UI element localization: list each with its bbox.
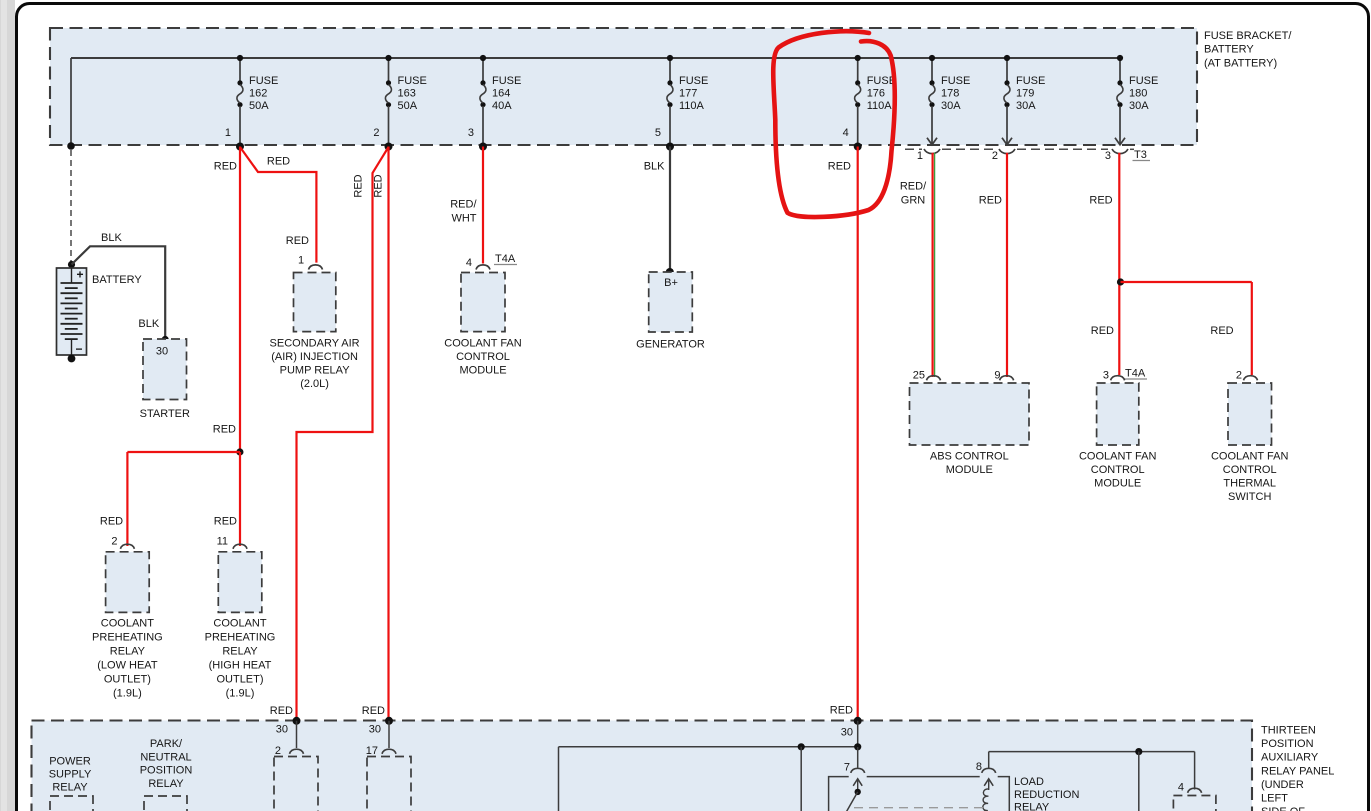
svg-text:177: 177 — [679, 87, 697, 99]
svg-text:RED: RED — [353, 174, 365, 197]
svg-text:30: 30 — [369, 723, 381, 735]
svg-text:30A: 30A — [1016, 100, 1036, 112]
svg-text:30A: 30A — [941, 100, 961, 112]
svg-text:SWITCH: SWITCH — [1228, 491, 1271, 503]
svg-text:(UNDER: (UNDER — [1261, 779, 1304, 791]
svg-text:RELAY: RELAY — [52, 782, 88, 794]
svg-text:RED: RED — [214, 515, 237, 527]
svg-text:SIDE OF: SIDE OF — [1261, 806, 1305, 811]
svg-text:RED: RED — [213, 424, 236, 436]
svg-text:RED: RED — [267, 156, 290, 168]
svg-text:CONTROL: CONTROL — [1091, 464, 1145, 476]
svg-text:GENERATOR: GENERATOR — [636, 339, 705, 351]
svg-text:1: 1 — [225, 127, 231, 139]
svg-text:50A: 50A — [249, 100, 269, 112]
svg-text:SECONDARY AIR: SECONDARY AIR — [270, 338, 360, 350]
svg-text:3: 3 — [1103, 370, 1109, 382]
svg-text:BLK: BLK — [101, 232, 122, 244]
svg-text:+: + — [76, 268, 83, 282]
svg-text:T4A: T4A — [495, 253, 516, 265]
svg-text:RED/: RED/ — [900, 181, 927, 193]
svg-text:FUSE: FUSE — [398, 75, 427, 87]
svg-text:POWER: POWER — [49, 756, 91, 768]
svg-text:POSITION: POSITION — [140, 765, 193, 777]
svg-text:176: 176 — [867, 87, 885, 99]
svg-text:AUXILIARY: AUXILIARY — [1261, 752, 1319, 764]
svg-text:COOLANT: COOLANT — [213, 618, 266, 630]
svg-text:FUSE BRACKET/: FUSE BRACKET/ — [1204, 30, 1292, 42]
svg-text:COOLANT FAN: COOLANT FAN — [1211, 451, 1288, 463]
svg-text:RED: RED — [362, 705, 385, 717]
svg-text:CONTROL: CONTROL — [1223, 464, 1277, 476]
svg-text:4: 4 — [466, 257, 472, 269]
svg-text:WHT: WHT — [451, 213, 476, 225]
svg-text:30A: 30A — [1129, 100, 1149, 112]
svg-text:164: 164 — [492, 87, 510, 99]
svg-text:COOLANT: COOLANT — [101, 618, 154, 630]
svg-text:(LOW HEAT: (LOW HEAT — [97, 660, 158, 672]
svg-text:PREHEATING: PREHEATING — [92, 632, 163, 644]
svg-text:50A: 50A — [398, 100, 418, 112]
svg-text:CONTROL: CONTROL — [456, 351, 510, 363]
svg-text:(AIR) INJECTION: (AIR) INJECTION — [271, 351, 358, 363]
svg-text:3: 3 — [1105, 150, 1111, 162]
svg-text:RELAY: RELAY — [148, 778, 184, 790]
svg-text:162: 162 — [249, 87, 267, 99]
svg-text:180: 180 — [1129, 87, 1147, 99]
svg-text:T3: T3 — [1134, 149, 1147, 161]
svg-text:(2.0L): (2.0L) — [300, 378, 329, 390]
svg-text:THERMAL: THERMAL — [1223, 478, 1276, 490]
svg-text:SUPPLY: SUPPLY — [49, 769, 92, 781]
svg-text:B+: B+ — [664, 277, 678, 289]
svg-text:NEUTRAL: NEUTRAL — [140, 751, 191, 763]
svg-text:(1.9L): (1.9L) — [226, 688, 255, 700]
svg-text:40A: 40A — [492, 100, 512, 112]
svg-text:17: 17 — [366, 745, 378, 757]
svg-text:THIRTEEN: THIRTEEN — [1261, 724, 1316, 736]
svg-text:5: 5 — [655, 127, 661, 139]
svg-text:163: 163 — [398, 87, 416, 99]
svg-text:1: 1 — [298, 255, 304, 267]
svg-text:BLK: BLK — [644, 161, 665, 173]
svg-text:ABS CONTROL: ABS CONTROL — [930, 451, 1009, 463]
svg-text:2: 2 — [111, 535, 117, 547]
svg-text:RED: RED — [1210, 325, 1233, 337]
svg-text:COOLANT FAN: COOLANT FAN — [1079, 451, 1156, 463]
svg-text:110A: 110A — [867, 100, 893, 112]
svg-text:FUSE: FUSE — [941, 75, 970, 87]
svg-text:30: 30 — [276, 723, 288, 735]
svg-text:BATTERY: BATTERY — [92, 274, 142, 286]
svg-text:RELAY: RELAY — [1014, 802, 1050, 811]
svg-text:BATTERY: BATTERY — [1204, 44, 1254, 56]
svg-text:FUSE: FUSE — [679, 75, 708, 87]
svg-text:RELAY: RELAY — [222, 646, 258, 658]
svg-text:4: 4 — [1178, 782, 1184, 794]
svg-text:OUTLET): OUTLET) — [104, 674, 151, 686]
svg-text:RED: RED — [372, 174, 384, 197]
svg-text:2: 2 — [275, 745, 281, 757]
svg-text:110A: 110A — [679, 100, 705, 112]
svg-text:RED: RED — [1089, 195, 1112, 207]
svg-text:3: 3 — [468, 127, 474, 139]
svg-text:RELAY: RELAY — [110, 646, 146, 658]
svg-text:2: 2 — [1236, 370, 1242, 382]
svg-text:MODULE: MODULE — [459, 365, 506, 377]
svg-text:OUTLET): OUTLET) — [216, 674, 263, 686]
svg-text:LOAD: LOAD — [1014, 776, 1044, 788]
svg-text:RED: RED — [828, 161, 851, 173]
svg-text:FUSE: FUSE — [867, 75, 896, 87]
svg-text:25: 25 — [913, 370, 925, 382]
svg-text:RED/: RED/ — [450, 199, 477, 211]
svg-text:1: 1 — [917, 150, 923, 162]
svg-text:178: 178 — [941, 87, 959, 99]
svg-text:RED: RED — [979, 195, 1002, 207]
svg-text:POSITION: POSITION — [1261, 738, 1314, 750]
svg-text:11: 11 — [217, 535, 228, 547]
svg-text:RED: RED — [830, 705, 853, 717]
svg-text:REDUCTION: REDUCTION — [1014, 789, 1079, 801]
svg-text:PREHEATING: PREHEATING — [205, 632, 276, 644]
svg-text:RELAY PANEL: RELAY PANEL — [1261, 765, 1334, 777]
svg-text:4: 4 — [843, 127, 849, 139]
svg-text:FUSE: FUSE — [1129, 75, 1158, 87]
svg-text:MODULE: MODULE — [946, 464, 993, 476]
svg-text:COOLANT FAN: COOLANT FAN — [444, 338, 521, 350]
svg-text:FUSE: FUSE — [492, 75, 521, 87]
svg-text:BLK: BLK — [138, 318, 159, 330]
svg-text:T4A: T4A — [1125, 368, 1146, 380]
svg-text:(AT BATTERY): (AT BATTERY) — [1204, 57, 1277, 69]
svg-text:30: 30 — [841, 727, 853, 739]
svg-text:PARK/: PARK/ — [150, 738, 183, 750]
svg-text:FUSE: FUSE — [1016, 75, 1045, 87]
svg-text:GRN: GRN — [901, 195, 926, 207]
svg-text:FUSE: FUSE — [249, 75, 278, 87]
svg-text:2: 2 — [373, 127, 379, 139]
svg-text:(1.9L): (1.9L) — [113, 688, 142, 700]
svg-text:8: 8 — [976, 761, 982, 773]
svg-text:7: 7 — [844, 762, 850, 774]
svg-text:RED: RED — [286, 235, 309, 247]
svg-text:179: 179 — [1016, 87, 1034, 99]
svg-text:30: 30 — [156, 346, 168, 358]
svg-text:(HIGH HEAT: (HIGH HEAT — [209, 660, 272, 672]
svg-text:STARTER: STARTER — [140, 408, 190, 420]
svg-text:LEFT: LEFT — [1261, 793, 1288, 805]
svg-text:MODULE: MODULE — [1094, 478, 1141, 490]
svg-text:2: 2 — [992, 150, 998, 162]
svg-text:RED: RED — [270, 705, 293, 717]
svg-text:RED: RED — [214, 161, 237, 173]
svg-text:RED: RED — [1091, 325, 1114, 337]
svg-text:RED: RED — [100, 515, 123, 527]
svg-text:−: − — [75, 342, 82, 356]
svg-text:PUMP RELAY: PUMP RELAY — [280, 365, 351, 377]
